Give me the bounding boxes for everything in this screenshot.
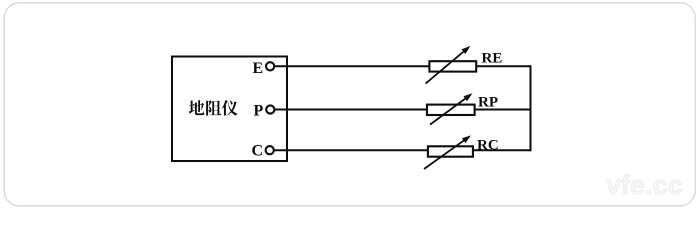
terminal C bbox=[266, 146, 274, 154]
resistor RE (variable) bbox=[426, 46, 477, 84]
svg-text:RP: RP bbox=[478, 95, 498, 111]
wire P terminal to RP bbox=[275, 109, 427, 111]
resistor RP (variable) bbox=[427, 93, 475, 124]
wire RP to bus bbox=[475, 109, 532, 111]
svg-text:E: E bbox=[253, 60, 264, 77]
wire C terminal to RC bbox=[274, 149, 428, 151]
wire RC to bus bbox=[474, 149, 532, 151]
svg-text:RE: RE bbox=[482, 51, 503, 67]
wire RE to bus bbox=[476, 65, 531, 67]
label 地阻仪 bbox=[189, 100, 238, 116]
wire E terminal to RE bbox=[274, 65, 429, 67]
bus wire (right vertical) bbox=[530, 65, 532, 151]
svg-text:vfe.cc: vfe.cc bbox=[606, 170, 683, 200]
svg-text:P: P bbox=[254, 103, 264, 120]
svg-text:C: C bbox=[252, 143, 264, 160]
svg-text:RC: RC bbox=[477, 138, 499, 154]
terminal E bbox=[266, 62, 274, 70]
earth resistance meter box U1 (地阻仪) bbox=[172, 57, 287, 162]
terminal P bbox=[266, 105, 274, 113]
resistor RC (variable) bbox=[424, 135, 473, 169]
